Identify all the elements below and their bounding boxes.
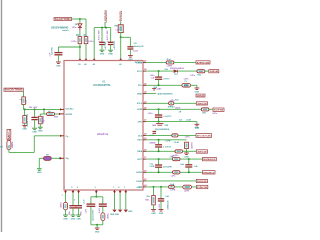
junction row10 cap branch: [158, 150, 160, 152]
capacitor C11 below row7: [153, 131, 157, 133]
label PRN3: [168, 107, 176, 109]
capacitor C15: [185, 165, 192, 167]
wire D2 to R11: [178, 70, 197, 72]
svg-text:RMASG2: RMASG2: [203, 158, 216, 161]
junction row14 right: [160, 186, 162, 188]
svg-text:SS020/4MMHG: SS020/4MMHG: [51, 27, 69, 30]
pin number 25: [144, 83, 146, 85]
resistor R18: [169, 185, 175, 188]
pin name XTALO top right: [135, 61, 142, 64]
wire row7: [146, 121, 197, 123]
svg-text:GND: GND: [22, 129, 27, 131]
junction USB rail left: [101, 27, 103, 29]
svg-text:USB/5V: USB/5V: [104, 9, 108, 22]
wire C9 to row3: [158, 80, 160, 86]
ground below C17: [71, 215, 76, 220]
junction row7 cap branch: [158, 121, 160, 123]
capacitor C5: [31, 117, 37, 119]
wire bottom pin gnd c down: [125, 193, 127, 209]
pin stub MODE: [59, 113, 64, 115]
pin stub right row 10: [143, 150, 146, 152]
label R19 value: [145, 199, 150, 201]
pin stub bottom x125.8: [125, 190, 128, 193]
wire bottom pin gnd a down: [114, 193, 116, 209]
svg-text:DCS: DCS: [138, 135, 143, 137]
ferrite bead FB1: [118, 25, 123, 33]
svg-text:3(0)3USA/MP41: 3(0)3USA/MP41: [157, 93, 173, 96]
svg-text:a.7uF/1V: a.7uF/1V: [163, 116, 172, 118]
symbol small mark above row4: [152, 89, 156, 90]
wire net 5V0 horizontal: [72, 18, 87, 20]
wire C14 to row12: [158, 167, 160, 172]
label C17 value vertical: [69, 210, 71, 215]
svg-text:SuD0: SuD0: [99, 208, 101, 213]
svg-text:GND: GND: [159, 213, 164, 215]
svg-text:0uB: 0uB: [180, 164, 184, 166]
ground below C8: [128, 56, 133, 61]
wire rail to C4: [110, 28, 112, 42]
svg-text:L2PB: L2PB: [184, 190, 189, 192]
wire row11 to C14: [158, 159, 160, 165]
svg-text:AGND: AGND: [136, 171, 142, 174]
pin stub right row 1: [143, 61, 146, 63]
junction row3 cap branch: [158, 84, 160, 86]
pin number bottom 5: [71, 187, 73, 189]
svg-text:GND: GND: [184, 156, 189, 158]
resistor R10: [166, 61, 174, 64]
wire R11 to flag: [205, 70, 209, 72]
label R18 name: [170, 184, 175, 186]
junction row14 left: [153, 186, 155, 188]
svg-text:USB6: USB6: [137, 94, 143, 96]
wire bottom pin3 down: [78, 193, 80, 205]
svg-text:DRCB: DRCB: [197, 187, 207, 189]
pin number 15: [144, 179, 146, 181]
svg-text:u.0F/1S0: u.0F/1S0: [114, 40, 116, 49]
ground below C2: [56, 62, 61, 67]
pin number 27: [144, 61, 146, 63]
wire row12: [146, 171, 202, 173]
wire split right branch: [96, 197, 103, 204]
wire flag down: [23, 91, 25, 97]
pin stub MICP: [60, 135, 64, 137]
wire C20 to R20: [102, 207, 104, 213]
ground below C5: [32, 128, 37, 133]
label R10 value: [167, 65, 173, 67]
label C15 value: [194, 166, 198, 168]
wire row5 to R12: [146, 102, 168, 104]
svg-text:RBIA: RBIA: [137, 150, 142, 153]
wire row14: [146, 186, 196, 188]
svg-text:uAB0a: uAB0a: [59, 201, 62, 208]
wire MIC to pin 1: [9, 136, 60, 153]
svg-text:mdm0: mdm0: [62, 30, 69, 32]
wire rail stub to pin x94: [93, 28, 95, 59]
svg-text:GND: GND: [37, 172, 42, 174]
label Y1 name: [184, 81, 187, 83]
svg-text:1uB: 1uB: [165, 196, 169, 198]
svg-text:L2PB: L2PB: [150, 166, 155, 168]
label U1 value: [97, 133, 109, 136]
wire bottom pin4 down: [95, 193, 97, 197]
junction row12 cap158: [158, 171, 160, 173]
label C15 name: [180, 164, 184, 166]
pin stub bottom x73.0: [72, 190, 75, 193]
label beside pin2: [74, 200, 75, 202]
label M1 name: [0, 147, 3, 149]
svg-text:GND: GND: [32, 132, 37, 134]
pin number 22: [144, 107, 146, 109]
svg-text:GND: GND: [151, 213, 156, 215]
svg-text:RMAMC3: RMAMC3: [203, 171, 215, 174]
net flag DCS: [196, 134, 212, 138]
svg-text:a.7F/1V: a.7F/1V: [163, 78, 171, 80]
svg-text:u0BA/1uB: u0BA/1uB: [166, 200, 169, 210]
net flag row4 USB: [196, 94, 205, 97]
label R13 name: [202, 112, 207, 114]
svg-text:u1F0: u1F0: [86, 209, 88, 213]
label 3R row6: [179, 112, 182, 114]
wire USB supply stub: [104, 22, 106, 27]
svg-text:GND: GND: [71, 218, 76, 220]
svg-text:Wk_kBV: Wk_kBV: [29, 107, 38, 109]
junction row11 cap188: [188, 158, 190, 160]
wire node to cap C2: [58, 46, 80, 48]
ground bottom center: [95, 228, 100, 233]
label C20 value vertical: [99, 208, 101, 213]
svg-text:26: 26: [144, 69, 146, 71]
pin stub DCLK: [60, 108, 64, 110]
wire R7 to ground: [39, 124, 41, 127]
label C4 value 10uF: [107, 30, 109, 42]
ground below D3: [63, 215, 68, 220]
net flag DACL: [196, 102, 207, 106]
wire row11: [146, 158, 202, 160]
diode D1: [78, 24, 82, 31]
pin name SCLK: [137, 103, 143, 105]
junction row2 cap branch: [158, 70, 160, 72]
wire C2 to ground: [57, 55, 59, 62]
svg-text:DMCB: DMCB: [197, 96, 205, 98]
pin stub right row 12: [143, 171, 146, 173]
svg-text:uAB0a: uAB0a: [11, 141, 14, 148]
wire row8 to R14: [146, 134, 172, 136]
pin stub right row 4: [143, 93, 146, 95]
svg-text:Y2B: Y2B: [164, 125, 168, 127]
wire D5 to MODE pin: [55, 113, 59, 115]
varistor RV1 below row9: [185, 142, 189, 148]
svg-text:L0uB: L0uB: [186, 120, 192, 122]
label R4 name: [84, 34, 88, 37]
wire D5 net horizontal: [40, 113, 46, 115]
label D1 name: [75, 24, 78, 26]
pin stub right row 9: [143, 139, 146, 141]
pin name XTLI: [138, 85, 143, 87]
wire RV1 to ground: [186, 149, 188, 153]
label R18 value: [170, 190, 175, 192]
svg-text:DGND: DGND: [136, 181, 142, 183]
pin number 44: [93, 63, 96, 66]
label C2 name: [49, 52, 51, 56]
pin number 19: [144, 138, 146, 140]
svg-text:u(0).1uF/16V: u(0).1uF/16V: [93, 209, 95, 221]
svg-text:M1a/Wb: M1a/Wb: [43, 115, 45, 123]
pin name AGND: [136, 171, 142, 174]
svg-text:S2M2B: S2M2B: [149, 142, 156, 144]
pin number 21: [144, 120, 146, 122]
label C19 value vertical: [86, 209, 88, 213]
svg-text:MIC+: MIC+: [7, 129, 11, 139]
svg-text:27: 27: [144, 61, 146, 63]
svg-text:BACR/TRM0: BACR/TRM0: [5, 89, 23, 92]
wire R6 to ground: [24, 123, 26, 125]
window frame left border: [1, 0, 3, 232]
wire Y1 to ground: [191, 85, 197, 87]
pin number 23: [144, 101, 146, 103]
svg-text:BACR/TRM0: BACR/TRM0: [55, 18, 72, 21]
label flag row6 value: [212, 113, 218, 115]
pin stub right row 6: [143, 108, 146, 110]
svg-text:21: 21: [144, 120, 146, 122]
label uABHG row6: [175, 106, 181, 109]
svg-text:1uB: 1uB: [194, 166, 198, 168]
wire C8 to ground: [129, 49, 131, 55]
net flag XTALO: [209, 70, 219, 74]
ground below C4: [108, 50, 113, 55]
wire R3 to pin: [79, 44, 81, 59]
svg-text:23: 23: [144, 101, 146, 103]
wire C13 to row10: [158, 147, 160, 151]
wire row14 to R19: [153, 187, 155, 196]
label R3 value 22R: [71, 41, 77, 43]
ground mic bias: [37, 169, 42, 174]
wire row2 junction to C9: [158, 71, 160, 77]
label R7 value vertical: [43, 115, 45, 123]
svg-text:3uF/L2PB: 3uF/L2PB: [163, 166, 172, 168]
svg-text:(3(0)3U(AMMP4): (3(0)3U(AMMP4): [155, 128, 170, 131]
label C9 value 22p: [163, 78, 171, 80]
label R5 value: [26, 99, 28, 103]
resistor R14: [172, 134, 178, 137]
pin number 14: [144, 184, 147, 187]
crystal Y2 below row7: [156, 124, 163, 126]
wire ground to FB2: [38, 158, 40, 169]
pin name bottom right: [139, 187, 142, 189]
svg-text:GND: GND: [38, 131, 43, 133]
label C11 name: [150, 135, 154, 137]
label above row4 mark: [156, 88, 161, 91]
svg-text:u.1uF: u.1uF: [83, 199, 85, 205]
wire VIN_ADC horizontal: [24, 108, 61, 110]
ground arrow gnd b: [118, 210, 122, 213]
wire FB2 to pin: [51, 157, 60, 159]
wire row4 short: [146, 93, 156, 95]
pin name XTLO: [137, 71, 143, 73]
wire D3 to ground: [65, 210, 67, 215]
net flag RMAMC3: [203, 171, 216, 175]
wire C15 to row12: [188, 167, 190, 172]
label GND right bottom: [128, 211, 133, 213]
svg-text:DREQ: DREQ: [136, 62, 142, 64]
svg-text:GND: GND: [195, 91, 200, 93]
junction row11 cap158: [158, 158, 160, 160]
pin number bottom 8: [118, 187, 120, 189]
svg-text:GND: GND: [56, 65, 61, 67]
svg-text:LEFT: LEFT: [137, 159, 143, 161]
pin stub bottom x65.5: [64, 190, 67, 193]
pin name RBIA: [137, 150, 142, 153]
pin name GBUF: [137, 187, 143, 189]
label Y2 name: [164, 125, 168, 127]
wire down to R7: [39, 114, 41, 116]
pin number 24: [144, 91, 147, 94]
svg-text:aw03: aw03: [133, 50, 139, 52]
wire split left branch: [91, 197, 96, 204]
junction at D5 branch: [43, 108, 45, 110]
label S03: [164, 69, 168, 71]
op-amp IC U1 body VS1053B: [64, 61, 143, 191]
svg-text:DGP0B: DGP0B: [214, 110, 224, 112]
resistor R19: [152, 196, 156, 205]
ground below RV1: [184, 153, 189, 158]
svg-text:3MGaB: 3MGaB: [197, 151, 207, 153]
pin stub MICN: [60, 157, 64, 159]
label Y2 long value: [155, 128, 170, 131]
label L2PB row9: [165, 140, 171, 142]
pin number 45: [84, 63, 87, 66]
wire elbow down to C2: [57, 47, 59, 52]
pin stub top pin 46: [79, 58, 81, 60]
wire row14 to C16: [160, 187, 162, 199]
label L1 value: [184, 190, 189, 192]
label C8 extra: [133, 50, 139, 52]
label D5 value: [54, 116, 59, 118]
net flag DREQ: [196, 61, 210, 65]
pin stub bottom x120.1: [119, 190, 122, 193]
wire 5V0 elbow down to R4: [85, 19, 87, 37]
junction at MICN pin: [59, 157, 61, 159]
wire row10 to R15: [146, 150, 175, 152]
svg-text:3: 3: [74, 200, 75, 202]
wire R10 to flag: [174, 61, 196, 63]
label L0uB row9: [174, 142, 180, 144]
label 3u0: [179, 120, 183, 122]
label R12 value: [170, 100, 176, 102]
ground right of Y1: [195, 88, 200, 93]
wire C17 to ground: [72, 208, 74, 215]
diode D2 on row2: [174, 70, 178, 73]
net label USB vertical: [104, 9, 108, 22]
resistor R16: [173, 158, 181, 161]
label R15 value: [174, 155, 180, 157]
label R20 value vertical: [107, 212, 110, 219]
wire row11 to C15: [188, 159, 190, 164]
pin number bottom 2: [64, 187, 66, 189]
pin name DCS: [138, 135, 143, 137]
ground arrow gnd a: [112, 210, 116, 213]
wire C18 to ground: [78, 208, 80, 215]
wire R14 to flag: [178, 134, 196, 136]
resistor R4: [84, 37, 88, 44]
label Y2 left: [152, 125, 156, 127]
label C13 value: [163, 147, 172, 149]
wire bottom bar: [91, 224, 103, 226]
diode D5 oval: [47, 113, 55, 116]
wire row6 junction to C10: [158, 109, 160, 114]
svg-text:DI/CKLI: DI/CKLI: [66, 109, 74, 111]
label RV1 value vertical: [191, 142, 194, 149]
wire row2: [146, 70, 174, 72]
pin stub bottom x114.5: [113, 190, 116, 193]
label SS020 line2: [62, 30, 69, 32]
label C9 name: [150, 75, 156, 77]
label C10 value: [163, 116, 172, 118]
capacitor C4: [108, 42, 114, 44]
label R19C16 purple vertical: [159, 204, 161, 208]
capacitor C16: [158, 199, 164, 201]
net flag MCLR left: [4, 88, 23, 92]
svg-text:RIGT: RIGT: [137, 140, 143, 142]
ground below C16: [159, 210, 164, 215]
pin stub right row 8: [143, 134, 146, 136]
label S0B above flag: [195, 127, 199, 129]
net label 5V0 vertical: [119, 10, 123, 21]
wire R13 to flag: [209, 108, 213, 110]
pin name DCLK: [66, 109, 74, 111]
label u0B row11: [170, 156, 174, 158]
wire row7 elbow to ground: [196, 122, 198, 124]
svg-text:GND: GND: [95, 231, 100, 233]
wire down to D5 net: [43, 109, 45, 114]
pin name DREQ: [136, 62, 142, 64]
pin number bottom 7: [113, 187, 115, 189]
label FB1 name: [114, 25, 119, 27]
svg-text:5V0/2L: 5V0/2L: [119, 10, 123, 21]
pin name RIGT: [137, 140, 143, 142]
wire rail to C3: [101, 28, 103, 42]
svg-text:SCLK: SCLK: [137, 103, 143, 105]
resistor R11: [197, 70, 205, 73]
wire branch to C8 horizontal: [121, 36, 131, 38]
label L0uB: [186, 120, 192, 122]
net flag SPKR/5V supply: [54, 17, 72, 21]
junction row6 cap branch: [158, 108, 160, 110]
net label XROM USB: [157, 93, 173, 96]
resistor R3: [78, 37, 82, 44]
svg-text:uABHG: uABHG: [191, 142, 194, 149]
label R19 name: [147, 196, 152, 198]
junction bottom bar: [96, 224, 98, 226]
pin stub bottom x78.6: [77, 190, 80, 193]
svg-text:DCS/CB: DCS/CB: [197, 135, 212, 137]
label FB2 name: [46, 155, 49, 157]
resistor R20 vertical oval: [101, 213, 105, 221]
resistor R17: [173, 171, 181, 174]
svg-text:eDuaP-ub: eDuaP-ub: [97, 133, 109, 136]
svg-text:tuB: tuB: [151, 77, 155, 80]
pin number 43: [119, 63, 122, 66]
wire down to R6: [24, 109, 26, 115]
net name VIN_ADC: [29, 107, 38, 109]
label R11 name: [198, 74, 203, 76]
inductor L1: [183, 185, 192, 189]
label C5 value: [39, 121, 46, 123]
label R16 value: [171, 155, 176, 157]
pin stub top pin 45: [85, 58, 87, 60]
label R14 value: [185, 136, 191, 138]
capacitor C10: [155, 115, 162, 117]
ground below R19: [151, 210, 156, 215]
